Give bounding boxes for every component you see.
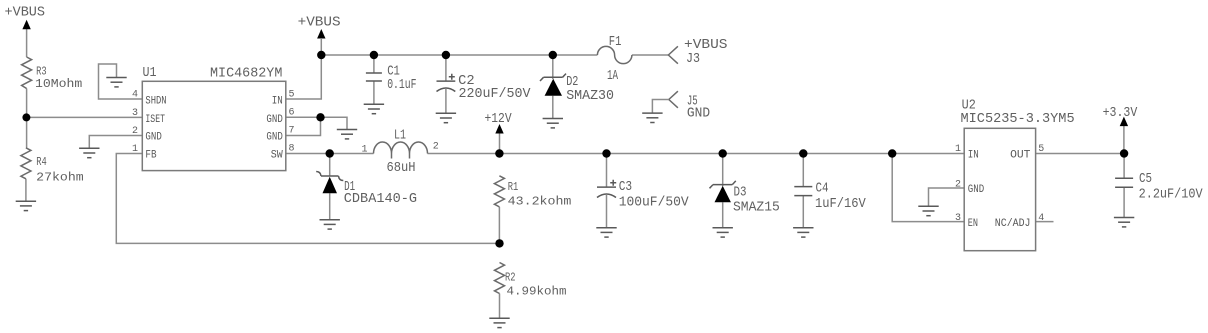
- svg-text:C5: C5: [1139, 172, 1152, 187]
- svg-text:SMAZ30: SMAZ30: [566, 89, 614, 104]
- svg-text:MIC4682YM: MIC4682YM: [210, 67, 282, 82]
- svg-text:3: 3: [132, 108, 138, 119]
- svg-text:L1: L1: [394, 129, 406, 144]
- svg-text:+VBUS: +VBUS: [5, 6, 46, 21]
- svg-text:4: 4: [1038, 213, 1044, 224]
- svg-text:4.99kohm: 4.99kohm: [507, 285, 567, 299]
- svg-text:NC/ADJ: NC/ADJ: [995, 218, 1031, 230]
- svg-text:+VBUS: +VBUS: [684, 38, 728, 53]
- svg-text:6: 6: [289, 108, 295, 119]
- svg-text:2: 2: [433, 142, 439, 153]
- svg-text:SMAZ15: SMAZ15: [733, 201, 780, 216]
- svg-text:1: 1: [955, 144, 961, 155]
- svg-text:OUT: OUT: [1010, 150, 1031, 162]
- svg-text:D2: D2: [566, 75, 578, 90]
- svg-text:2: 2: [132, 126, 138, 137]
- svg-text:ISET: ISET: [145, 114, 165, 126]
- svg-text:GND: GND: [266, 114, 283, 126]
- svg-text:1A: 1A: [607, 69, 619, 84]
- svg-text:EN: EN: [968, 218, 978, 230]
- svg-text:R2: R2: [505, 271, 516, 285]
- svg-text:R1: R1: [508, 180, 519, 194]
- svg-text:D3: D3: [734, 186, 747, 201]
- svg-text:1: 1: [132, 144, 138, 155]
- svg-text:100uF/50V: 100uF/50V: [619, 196, 690, 211]
- svg-text:0.1uF: 0.1uF: [387, 78, 416, 93]
- svg-text:IN: IN: [968, 150, 979, 162]
- svg-text:GND: GND: [968, 184, 985, 196]
- svg-text:43.2kohm: 43.2kohm: [508, 195, 572, 209]
- svg-text:MIC5235-3.3YM5: MIC5235-3.3YM5: [961, 112, 1075, 127]
- svg-text:+VBUS: +VBUS: [298, 16, 341, 31]
- svg-text:220uF/50V: 220uF/50V: [459, 87, 532, 102]
- svg-text:C3: C3: [619, 180, 632, 195]
- svg-text:U1: U1: [143, 66, 157, 81]
- svg-text:27kohm: 27kohm: [36, 171, 83, 185]
- svg-text:68uH: 68uH: [387, 161, 416, 176]
- svg-text:2: 2: [955, 180, 961, 191]
- svg-text:GND: GND: [145, 132, 162, 144]
- svg-text:4: 4: [132, 90, 138, 101]
- svg-text:SHDN: SHDN: [145, 95, 166, 107]
- svg-text:1: 1: [362, 145, 368, 156]
- svg-text:GND: GND: [266, 132, 283, 144]
- svg-text:C4: C4: [816, 182, 829, 197]
- svg-text:R4: R4: [36, 155, 47, 169]
- svg-text:+12V: +12V: [485, 112, 513, 127]
- svg-text:J3: J3: [686, 52, 700, 67]
- svg-text:7: 7: [289, 126, 295, 137]
- svg-text:1uF/16V: 1uF/16V: [815, 197, 867, 212]
- svg-text:2.2uF/10V: 2.2uF/10V: [1139, 188, 1204, 203]
- svg-text:CDBA140-G: CDBA140-G: [344, 192, 417, 207]
- svg-text:F1: F1: [609, 35, 622, 50]
- svg-text:SW: SW: [271, 150, 283, 162]
- svg-text:5: 5: [1038, 144, 1044, 155]
- svg-text:IN: IN: [272, 95, 283, 107]
- svg-text:+3.3V: +3.3V: [1103, 106, 1138, 121]
- svg-text:3: 3: [955, 213, 961, 224]
- svg-text:GND: GND: [687, 107, 710, 122]
- svg-text:10Mohm: 10Mohm: [35, 77, 82, 91]
- svg-text:8: 8: [289, 144, 295, 155]
- svg-text:5: 5: [289, 90, 295, 101]
- svg-text:FB: FB: [145, 150, 156, 162]
